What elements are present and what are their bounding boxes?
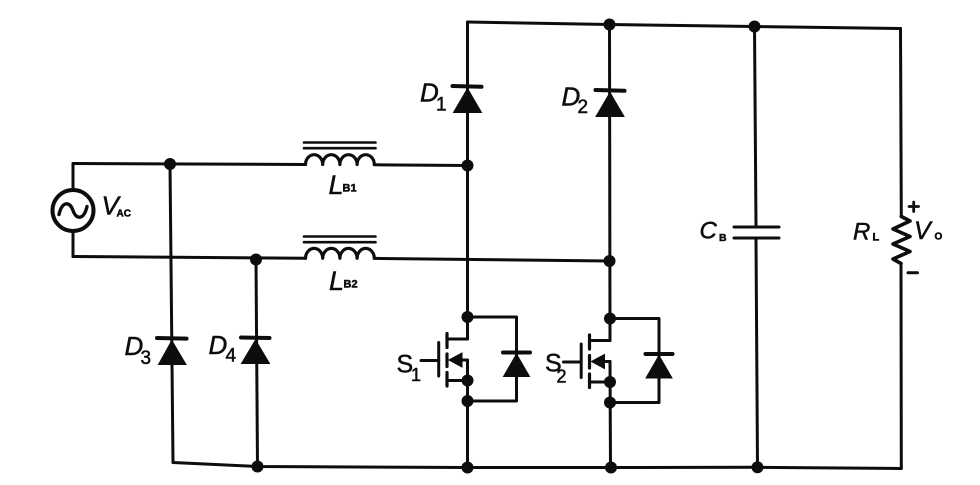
svg-text:B1: B1 (343, 183, 357, 195)
svg-text:O: O (935, 232, 943, 243)
svg-text:4: 4 (226, 346, 237, 367)
svg-text:2: 2 (578, 97, 589, 118)
svg-text:B2: B2 (344, 279, 358, 291)
svg-text:2: 2 (557, 367, 567, 387)
svg-text:L: L (873, 232, 880, 244)
svg-text:3: 3 (141, 348, 152, 369)
svg-text:D: D (209, 330, 228, 360)
svg-text:1: 1 (436, 95, 447, 116)
svg-text:B: B (719, 232, 727, 244)
svg-text:1: 1 (411, 365, 421, 385)
svg-text:AC: AC (117, 209, 131, 220)
svg-text:C: C (700, 218, 718, 245)
svg-text:L: L (329, 170, 344, 200)
svg-text:R: R (853, 219, 870, 246)
svg-text:V: V (914, 217, 933, 245)
svg-text:L: L (329, 266, 344, 296)
